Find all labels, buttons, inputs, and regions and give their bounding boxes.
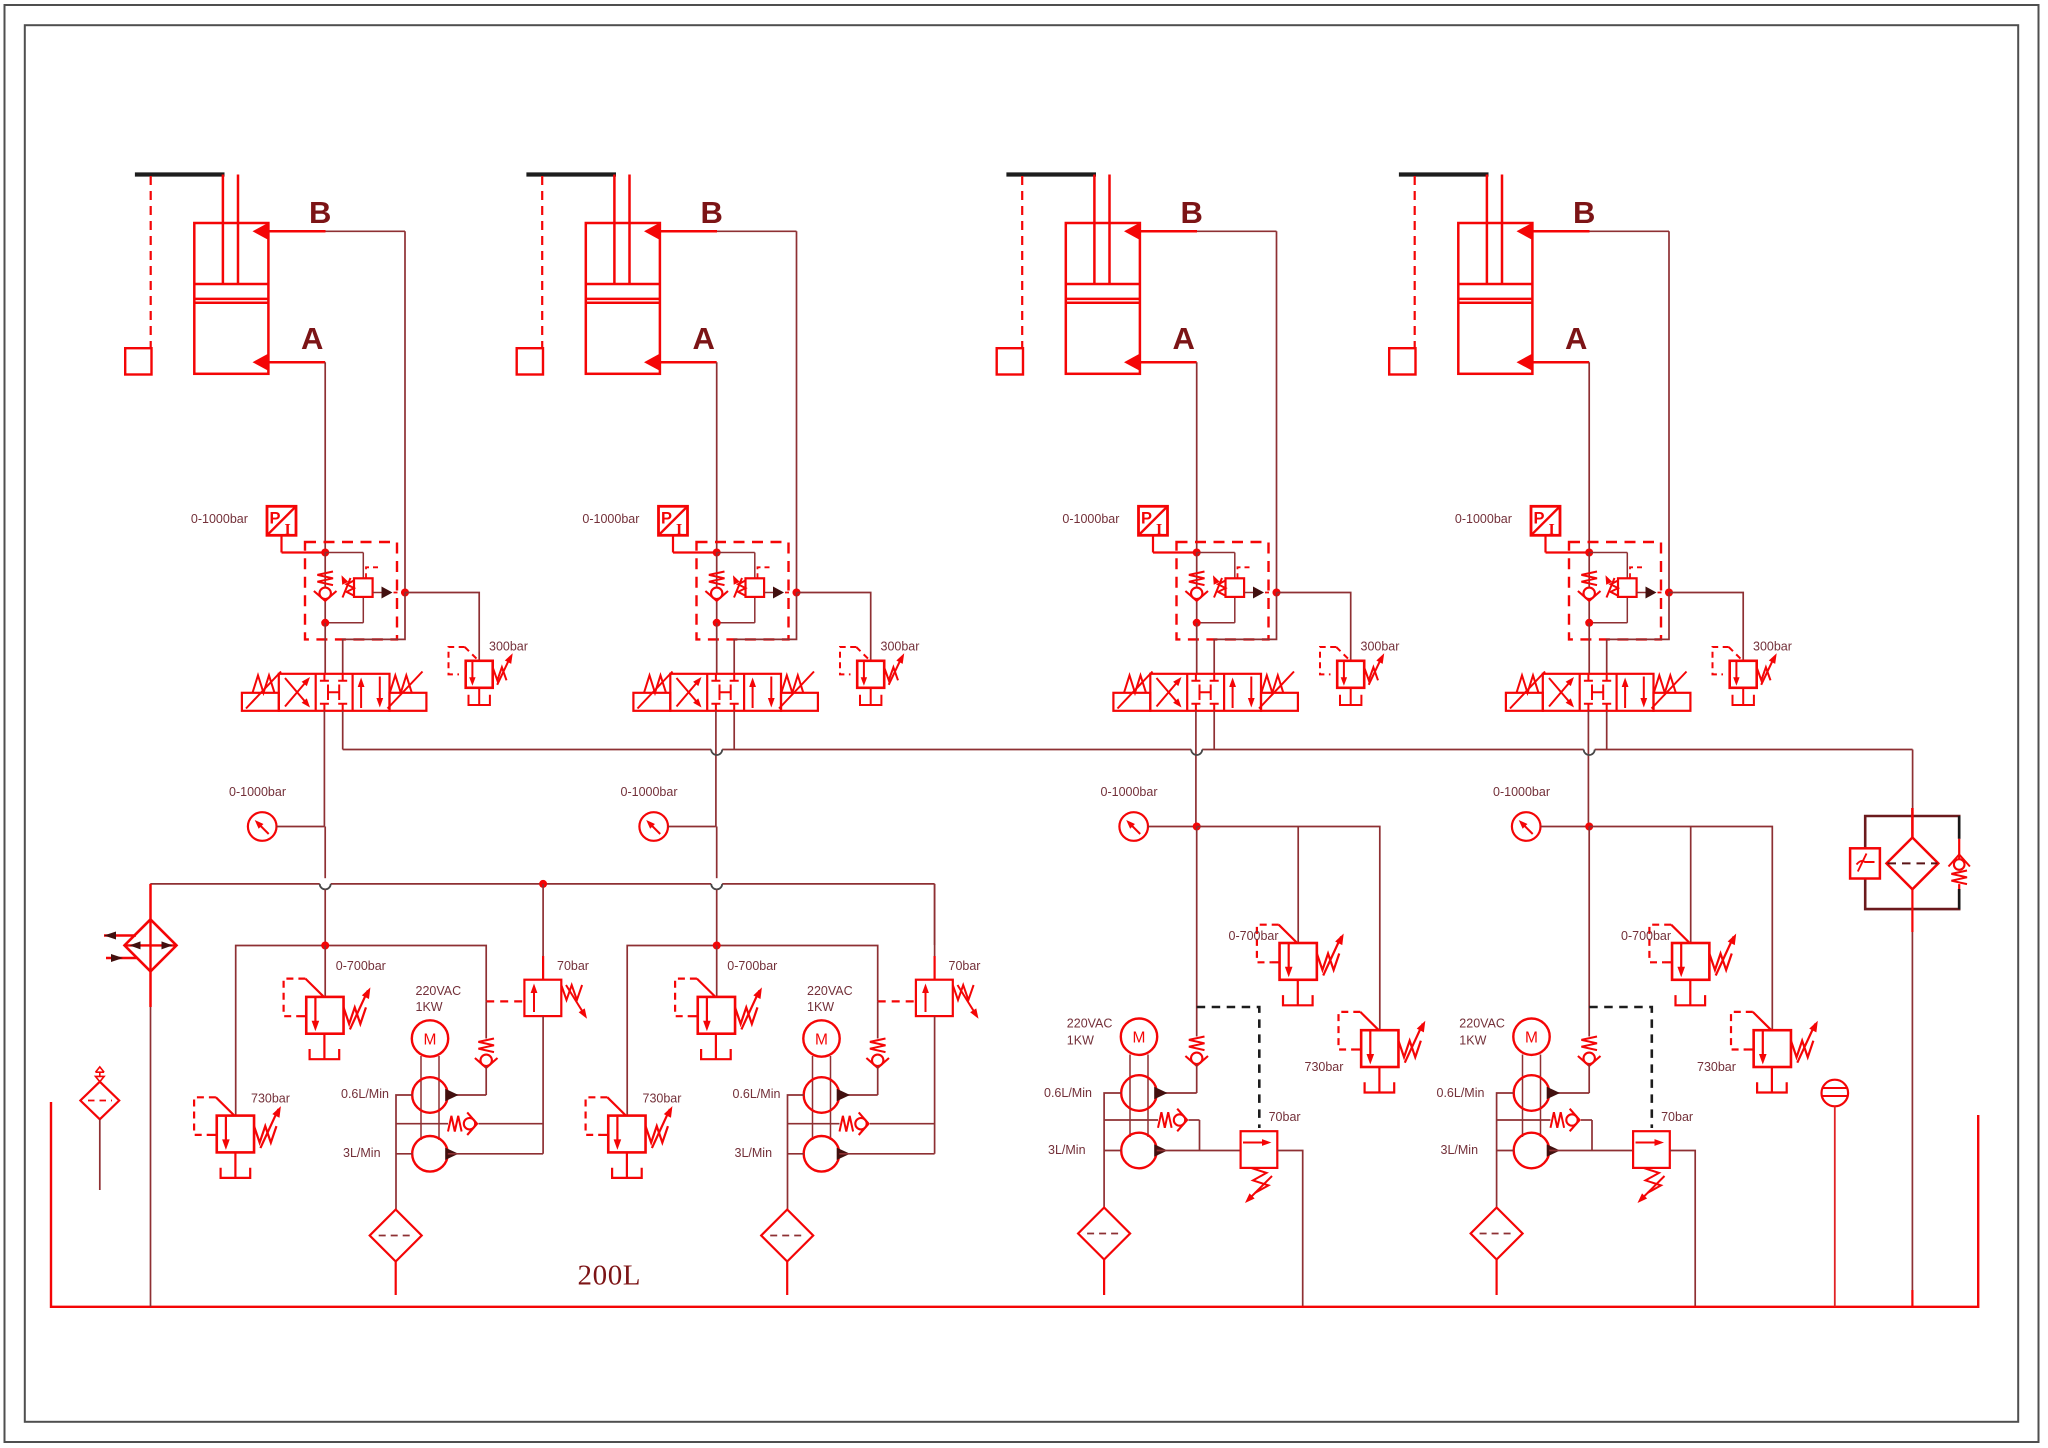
pilot dashed 70bar 1 [486,1000,524,1002]
port A arrow 4 [1517,353,1534,371]
wire T return bus [343,749,712,751]
unloader valve 70bar 3 [1241,1131,1278,1168]
svg-text:M: M [424,1032,437,1049]
wire 70bar outlet to tank 4 [1670,1151,1695,1307]
node B junction 4 [1665,589,1673,597]
wire A to valve 1 [324,623,326,674]
svg-text:0-700bar: 0-700bar [336,959,386,973]
node A-top junction 4 [1585,549,1593,557]
solenoid left 4 [1506,693,1543,711]
relief valve 300bar [1337,661,1364,688]
suction pipe 3 [1103,1260,1105,1296]
counterbalance valve dashed enclosure 2 [697,542,789,639]
node A-top junction 3 [1193,549,1201,557]
cylinder 4 barrel [1458,223,1532,374]
pump P2 3L 3 [1121,1133,1157,1169]
check valve line 1 [396,1123,448,1125]
tank drain 0-700 2 [715,1034,717,1060]
svg-text:0.6L/Min: 0.6L/Min [341,1087,389,1101]
svg-text:220VAC: 220VAC [807,984,853,998]
tank drain 0-700 1 [323,1034,325,1060]
wire port A 4 [1532,361,1589,364]
wire pump2 outlet 4 [1549,1150,1633,1152]
pressure transducer P/I 1 [267,506,296,535]
wire port B 2 [660,230,717,233]
node pump junction 1 [321,942,329,950]
check valve line 4 [1497,1119,1551,1121]
position sensor dashed line 1 [150,176,152,348]
wire pump1 outlet 3 [1157,1092,1197,1094]
counterbalance valve dashed enclosure 1 [305,542,397,639]
air breather [80,1082,119,1120]
CB pilot relief 2 [754,553,756,579]
tank drain 300bar [478,688,480,705]
wire P down 4 [1588,827,1590,1037]
wire to 300bar relief 3 [1277,593,1351,661]
svg-text:3L/Min: 3L/Min [1048,1143,1086,1157]
wire pump2 outlet 2 [839,1153,934,1155]
breather pipe [99,1119,101,1190]
sensor box 3 [997,348,1023,374]
suction line 2 [788,1095,805,1209]
CB output triangle 1 [382,587,393,599]
port A arrow 2 [644,353,661,371]
valve box parallel arrows 2 [752,681,754,708]
solenoid right 4 [1654,693,1691,711]
solenoid left 1 [242,693,279,711]
svg-text:3L/Min: 3L/Min [735,1146,773,1160]
tank drain 300bar [1350,688,1352,705]
check valve CB 3 [1196,553,1198,623]
relief valve 730bar 1 [217,1116,254,1153]
CB pilot relief 1 [362,553,364,579]
directional valve 4/3 1 [279,674,390,711]
pump P1 0.6L 4 [1514,1075,1550,1111]
wire B to valve 4 [1607,593,1669,675]
line hop [711,884,722,890]
drive shaft 4 [1523,1055,1541,1138]
svg-text:B: B [309,195,331,230]
relief valve 730bar 3 [1361,1030,1398,1067]
wire port B 1 [268,230,325,233]
valve box center blocked 3 [1191,674,1218,681]
pump P2 3L 2 [804,1136,840,1172]
wire to 300bar relief 1 [405,593,479,661]
svg-text:70bar: 70bar [557,959,589,973]
check valve bypass 4 [1551,1112,1565,1128]
port B arrow 2 [644,222,661,240]
svg-text:A: A [1173,321,1195,356]
valve box center blocked 1 [320,674,347,681]
cylinder 4 piston [1458,284,1532,303]
check valve pump1 1 [478,1039,494,1053]
svg-text:P: P [270,510,281,528]
cylinder 1 piston [194,284,268,303]
position sensor dashed line 3 [1021,176,1023,348]
line hop [320,884,331,890]
heat exchanger [149,884,152,920]
wire port A 2 [660,361,717,364]
motor M 3 [1121,1018,1157,1054]
svg-text:B: B [1181,195,1203,230]
sensor box 4 [1389,348,1415,374]
CB output triangle 2 [773,587,784,599]
solenoid left 3 [1113,693,1150,711]
svg-text:B: B [1573,195,1595,230]
cylinder mount wall 1 [135,172,225,176]
tank drain 730 3 [1378,1067,1380,1093]
relief valve 0-700bar 4 [1672,943,1709,980]
check valve line 2 [788,1123,840,1125]
level gauge [1822,1080,1849,1107]
svg-text:0-700bar: 0-700bar [1621,929,1671,943]
pilot dashed line 4 [1589,1007,1652,1128]
cylinder 3 barrel [1066,223,1140,374]
valve box crossed arrows 4 [1549,680,1572,707]
tank drain 300bar [1742,688,1744,705]
unloader valve 70bar 4 [1633,1131,1670,1168]
svg-text:730bar: 730bar [1305,1060,1344,1074]
relief valve 300bar [857,661,884,688]
wire 70bar to pump circuit 2 [934,1016,936,1154]
relief valve 0-700bar 2 [698,997,735,1034]
tank drain 0-700 4 [1689,980,1691,1006]
wire A to valve 4 [1588,623,1590,674]
pump P1 0.6L 3 [1121,1075,1157,1111]
check valve CB 1 [317,572,333,586]
pump P2 3L 4 [1514,1133,1550,1169]
node gauge junction 4 [1585,823,1593,831]
pilot dashed 70bar 2 [878,1000,916,1002]
cylinder 2 piston [586,284,660,303]
pressure gauge G3 0-1000bar [1119,812,1148,841]
port A arrow 1 [253,353,270,371]
line hop [1584,750,1595,756]
unloader valve 70bar 2 [934,884,936,956]
wire to 0-700bar 4 [1690,827,1692,944]
CB pilot relief 4 [1626,553,1628,579]
suction filter suction 2 [761,1210,813,1262]
wire port B 4 [1532,230,1589,233]
svg-text:0.6L/Min: 0.6L/Min [1437,1086,1485,1100]
pressure transducer P/I 2 [659,506,688,535]
check valve CB 3 [1189,572,1205,586]
sensor box 1 [125,348,151,374]
solenoid left 2 [633,693,670,711]
suction line 3 [1104,1093,1121,1208]
suction pipe 4 [1495,1260,1497,1296]
svg-text:220VAC: 220VAC [1459,1017,1505,1031]
pressure gauge G2 0-1000bar [639,812,668,841]
svg-text:1KW: 1KW [416,1000,443,1014]
tank drain 300bar [870,688,872,705]
counterbalance valve dashed enclosure 4 [1569,542,1661,639]
counterbalance valve dashed enclosure 3 [1177,542,1269,639]
CB output triangle 3 [1253,587,1264,599]
cylinder 4 piston rod [1487,175,1502,285]
wire P below valve 2 [715,711,717,827]
wire A to valve 2 [716,623,718,674]
svg-text:P: P [661,510,672,528]
check valve bypass 3 [1158,1112,1172,1128]
manifold wire 2 [627,946,878,1116]
port B arrow 4 [1517,222,1534,240]
valve box crossed arrows 1 [285,680,308,707]
port B arrow 1 [253,222,270,240]
relief valve 0-700bar 3 [1280,943,1317,980]
position sensor dashed line 2 [541,176,543,348]
node A-bottom junction 2 [713,619,721,627]
pressure gauge G4 0-1000bar [1512,812,1541,841]
svg-text:300bar: 300bar [489,640,528,654]
wire B to valve 3 [1214,593,1276,675]
svg-text:0-1000bar: 0-1000bar [1455,512,1512,526]
pressure transducer P/I 4 [1531,506,1560,535]
wire port B 3 [1140,230,1197,233]
check valve pump1 4 [1581,1037,1597,1051]
node A-bottom junction 1 [321,619,329,627]
CB output triangle 4 [1646,587,1657,599]
line hop [1191,750,1202,756]
valve box crossed arrows 3 [1157,680,1180,707]
wire B to valve 2 [734,593,796,675]
directional valve 4/3 3 [1150,674,1261,711]
sensor box 2 [517,348,543,374]
wire port A 1 [268,361,325,364]
port B arrow 3 [1124,222,1141,240]
svg-text:P: P [1534,510,1545,528]
check valve line 3 [1104,1119,1158,1121]
cylinder mount wall 4 [1399,172,1489,176]
manifold wire 1 [236,946,487,1116]
svg-text:M: M [1133,1030,1146,1047]
wire pump1 outlet 1 [448,1094,486,1096]
wire cooler header [150,883,319,885]
svg-text:I: I [676,522,682,539]
filter outlet pipe [1911,889,1913,932]
svg-text:1KW: 1KW [1459,1034,1486,1048]
wire T drop c1 [342,711,344,750]
wire P down 3 [1196,827,1198,1037]
node A-top junction 1 [321,549,329,557]
svg-text:A: A [301,321,323,356]
svg-text:220VAC: 220VAC [416,984,462,998]
level gauge pipe [1834,1106,1836,1307]
CB pilot relief 3 [1234,553,1236,579]
node pump junction 2 [713,942,721,950]
svg-text:70bar: 70bar [1269,1110,1301,1124]
wire return to filter [1912,750,1914,809]
tank 200L [51,1102,1978,1307]
check valve bypass 2 [840,1116,854,1132]
svg-text:0-700bar: 0-700bar [727,959,777,973]
solenoid right 2 [781,693,818,711]
drive shaft 3 [1130,1055,1148,1138]
wire pump1 outlet 2 [839,1094,877,1096]
svg-text:I: I [1156,522,1162,539]
suction line 4 [1497,1093,1514,1208]
port A arrow 3 [1124,353,1141,371]
solenoid right 1 [390,693,427,711]
suction filter suction 3 [1078,1208,1130,1260]
motor M 4 [1513,1018,1549,1054]
cylinder 1 piston rod [223,175,238,285]
line hop [711,750,722,756]
svg-text:1KW: 1KW [807,1000,834,1014]
distribution wire 3 [1197,827,1380,1031]
check valve pump1 2 [870,1039,886,1053]
motor M 1 [412,1020,448,1056]
tank drain 730 1 [234,1152,236,1178]
svg-text:1KW: 1KW [1067,1034,1094,1048]
svg-text:200L: 200L [578,1260,642,1292]
cylinder 3 piston rod [1094,175,1109,285]
svg-text:3L/Min: 3L/Min [1441,1143,1479,1157]
return filter block [1865,816,1959,848]
valve box center blocked 2 [711,674,738,681]
check valve CB 4 [1581,572,1597,586]
wire to 300bar relief 4 [1669,593,1743,661]
suction pipe 1 [395,1262,397,1296]
node A-bottom junction 4 [1585,619,1593,627]
unloader valve 70bar 1 [542,884,544,956]
tank drain 730 2 [626,1152,628,1178]
check valve CB 2 [716,553,718,623]
tank drain 730 4 [1771,1067,1773,1093]
valve box parallel arrows 3 [1232,681,1234,708]
wire pump2 outlet 3 [1157,1150,1241,1152]
wire P below valve 1 [323,711,325,827]
wire 70bar outlet to tank 3 [1277,1151,1302,1307]
node A-bottom junction 3 [1193,619,1201,627]
suction line 1 [396,1095,413,1209]
pump P1 0.6L 2 [804,1077,840,1113]
node B junction 2 [793,589,801,597]
svg-text:70bar: 70bar [949,959,981,973]
svg-text:730bar: 730bar [1697,1060,1736,1074]
wire cooler to tank [149,971,152,1007]
cooler flow arrows [130,941,141,949]
relief valve 730bar 4 [1754,1030,1791,1067]
wire P below valve 3 [1195,711,1197,827]
cylinder mount wall 3 [1006,172,1096,176]
relief valve 300bar [466,661,493,688]
relief 0-700bar 1 [324,946,326,997]
check valve CB 1 [324,553,326,623]
tank drain 0-700 3 [1297,980,1299,1006]
svg-text:730bar: 730bar [251,1092,290,1106]
valve box parallel arrows 4 [1624,681,1626,708]
distribution wire 4 [1589,827,1772,1031]
svg-text:0-1000bar: 0-1000bar [1062,512,1119,526]
wire A to valve 3 [1196,623,1198,674]
wire P below valve 4 [1587,711,1589,827]
wire T drop [733,711,735,750]
check valve bypass 1 [448,1116,462,1132]
svg-text:300bar: 300bar [1361,640,1400,654]
svg-text:3L/Min: 3L/Min [343,1146,381,1160]
wire pump2 outlet 1 [448,1153,543,1155]
svg-text:0.6L/Min: 0.6L/Min [733,1087,781,1101]
node B junction 3 [1273,589,1281,597]
wire to 70bar c2 [934,884,936,945]
node B junction 1 [401,589,409,597]
node A-top junction 2 [713,549,721,557]
suction filter suction 4 [1471,1208,1523,1260]
svg-text:70bar: 70bar [1661,1110,1693,1124]
svg-text:M: M [815,1032,828,1049]
wire B to valve 1 [343,593,405,675]
svg-text:0-1000bar: 0-1000bar [191,512,248,526]
directional valve 4/3 4 [1543,674,1654,711]
svg-text:300bar: 300bar [881,640,920,654]
svg-text:0-700bar: 0-700bar [1229,929,1279,943]
cylinder mount wall 2 [526,172,616,176]
svg-text:730bar: 730bar [643,1092,682,1106]
svg-text:220VAC: 220VAC [1067,1017,1113,1031]
wire to 0-700bar 3 [1297,827,1299,944]
cylinder 2 barrel [586,223,660,374]
wire T drop [1213,711,1215,750]
wire pump1 outlet 4 [1549,1092,1589,1094]
position sensor dashed line 4 [1414,176,1416,348]
svg-text:0-1000bar: 0-1000bar [582,512,639,526]
wire T drop [1606,711,1608,750]
relief valve 300bar [1730,661,1757,688]
return filter element [1911,808,1914,838]
svg-text:0-1000bar: 0-1000bar [229,785,286,799]
svg-text:0.6L/Min: 0.6L/Min [1044,1086,1092,1100]
svg-text:A: A [1565,321,1587,356]
wire P line to manifold 2 [716,827,718,879]
cylinder 1 barrel [194,223,268,374]
relief 0-700bar 2 [716,946,718,997]
relief valve 730bar 2 [608,1116,645,1153]
valve box crossed arrows 2 [677,680,700,707]
svg-text:B: B [701,195,723,230]
svg-text:300bar: 300bar [1753,640,1792,654]
svg-text:0-1000bar: 0-1000bar [1493,785,1550,799]
svg-text:A: A [693,321,715,356]
wire port A 3 [1140,361,1197,364]
valve box center blocked 4 [1584,674,1611,681]
clogging indicator [1850,848,1880,878]
node gauge junction 3 [1193,823,1201,831]
pump P1 0.6L 1 [412,1077,448,1113]
check valve pump1 3 [1189,1037,1205,1051]
suction filter suction 1 [370,1210,422,1262]
svg-text:0-1000bar: 0-1000bar [621,785,678,799]
drive shaft 2 [813,1056,831,1140]
valve box parallel arrows 1 [360,681,362,708]
wire check riser 1 [485,1001,487,1038]
pilot dashed line 3 [1197,1007,1260,1128]
motor M 2 [803,1020,839,1056]
cylinder 3 piston [1066,284,1140,303]
svg-text:0-1000bar: 0-1000bar [1101,785,1158,799]
pump P2 3L 1 [412,1136,448,1172]
bypass check valve [1958,839,1960,860]
check valve CB 4 [1588,553,1590,623]
wire 70bar to pump circuit 1 [542,1016,544,1154]
cylinder 2 piston rod [614,175,629,285]
svg-text:P: P [1141,510,1152,528]
wire check riser 2 [877,1001,879,1038]
svg-text:M: M [1525,1030,1538,1047]
directional valve 4/3 2 [670,674,781,711]
wire P line to manifold 1 [324,827,326,879]
node cooler junction [539,880,547,888]
